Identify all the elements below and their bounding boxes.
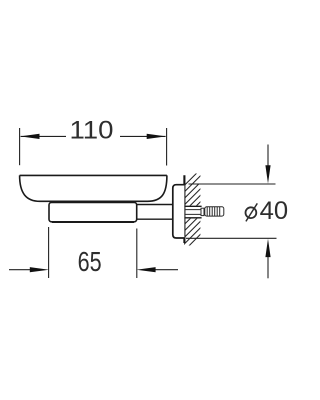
- wall face: [183, 175, 185, 243]
- dimension 65 arrow left: [30, 267, 49, 272]
- wall hatching: [184, 169, 201, 251]
- holder ring bottom edge: [52, 221, 134, 223]
- dimension 40 tail bottom: [267, 257, 269, 278]
- dimension 40 diameter symbol: [246, 203, 258, 221]
- svg-text:65: 65: [78, 246, 102, 277]
- dimension 110 arrow right: [147, 134, 166, 139]
- mounting arm: [137, 205, 174, 220]
- dimension 110 extension line left: [19, 128, 21, 165]
- dimension 65 tail right: [155, 269, 178, 271]
- svg-text:110: 110: [70, 117, 114, 145]
- dimension 65 tail left: [9, 269, 31, 271]
- screw hole outline: [184, 206, 201, 218]
- dimension 40 extension line top: [189, 183, 276, 185]
- screw shank: [184, 210, 200, 215]
- dimension 110 arrow left: [20, 134, 39, 139]
- screw collar: [201, 208, 204, 215]
- soap dish body: [20, 175, 167, 201]
- svg-text:40: 40: [260, 197, 289, 225]
- dimension 40 arrow bottom: [265, 239, 270, 257]
- dimension 65 extension line right: [136, 229, 138, 279]
- dimension 40 tail top: [267, 145, 269, 167]
- wall hole white gap: [185, 206, 202, 219]
- dimension 110 line: [21, 135, 166, 137]
- holder ring: [49, 202, 137, 221]
- wall plate: [173, 185, 185, 238]
- screw threaded part: [205, 207, 224, 216]
- dimension 40 extension line bottom: [186, 237, 277, 239]
- dimension 40 arrow top: [265, 165, 270, 183]
- dimension 65 arrow right: [136, 267, 155, 272]
- dimension 65 extension line left: [48, 227, 50, 278]
- dimension 110 extension line right: [166, 128, 168, 166]
